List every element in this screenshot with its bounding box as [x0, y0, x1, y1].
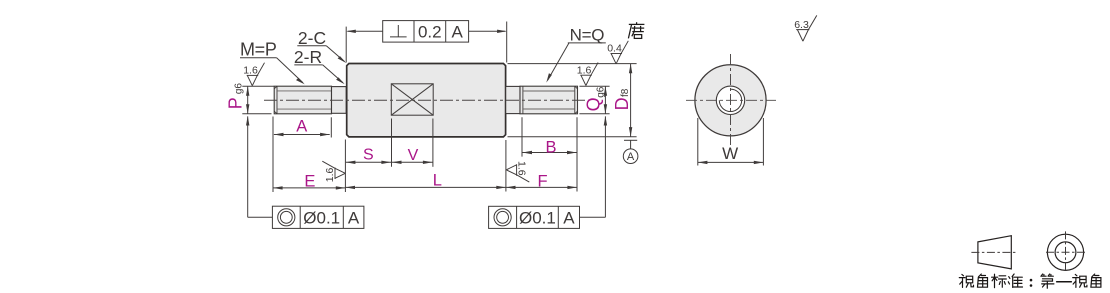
D arrows	[629, 64, 632, 74]
A arrows	[274, 133, 284, 136]
F arrows	[506, 186, 516, 189]
perpendicularity frame leaders	[346, 22, 507, 63]
svg-text:A: A	[296, 118, 307, 136]
V arrows	[392, 161, 402, 164]
svg-text:Ø0.1: Ø0.1	[519, 208, 556, 227]
D dimension line	[630, 64, 632, 137]
svg-text:A: A	[348, 208, 360, 227]
end view thread major circle	[716, 86, 744, 114]
arrowheads for dimensions	[246, 64, 763, 190]
shaft left neck	[332, 87, 347, 114]
svg-text:A: A	[452, 22, 464, 41]
svg-text:N=Q: N=Q	[570, 26, 605, 45]
first-angle projection cone symbol	[978, 236, 1011, 269]
end view centerlines	[686, 54, 776, 147]
wire centerline over body	[264, 99, 589, 101]
svg-text:M=P: M=P	[240, 40, 277, 60]
perpendicularity feature control frame	[383, 21, 469, 42]
svg-text:6.3: 6.3	[794, 19, 809, 31]
Q dimension extension lines	[579, 85, 609, 87]
perpendicularity symbol	[397, 25, 399, 37]
svg-text:2-C: 2-C	[298, 28, 326, 48]
datum A symbol below D dimension	[623, 140, 638, 163]
surface finish 0.4 (on D top extension)	[611, 41, 629, 64]
left thread minor-diameter lines	[277, 90, 331, 92]
end view thread minor 3/4 arc	[719, 89, 741, 111]
Q dimension line + datum leader (right)	[604, 86, 606, 114]
svg-text:0.4: 0.4	[607, 43, 622, 55]
label 磨 (grind)	[628, 22, 644, 38]
E / L / F dimension lines	[344, 140, 346, 193]
Q arrows	[604, 86, 607, 96]
svg-text:1.6: 1.6	[515, 161, 527, 176]
dimension letter Q with fit g6 (rotated)	[583, 97, 603, 111]
svg-text:A: A	[563, 208, 575, 227]
L arrows	[345, 186, 355, 189]
svg-text:g6: g6	[595, 86, 606, 98]
svg-text:A: A	[627, 151, 635, 163]
W dimension	[698, 118, 764, 166]
concentricity feature control frame (right)	[489, 206, 580, 228]
svg-text:Ø0.1: Ø0.1	[303, 208, 340, 227]
A dimension	[272, 117, 274, 193]
S arrows	[346, 161, 356, 164]
svg-text:V: V	[408, 147, 419, 164]
svg-text:L: L	[433, 171, 442, 189]
shaft left threaded end	[274, 86, 331, 114]
svg-text:P: P	[225, 97, 245, 109]
D dimension extension lines	[508, 63, 637, 65]
dimension letter P with fit g6 (rotated)	[225, 97, 245, 109]
svg-text:S: S	[363, 146, 374, 163]
svg-text:D: D	[612, 97, 632, 110]
concentricity feature control frame (left)	[272, 206, 364, 228]
text 视角标准：第一视角 (drawn strokes)	[959, 274, 1101, 288]
svg-text:E: E	[304, 172, 315, 190]
surface finish 6.3 (general, top right)	[796, 15, 817, 41]
svg-text:0.2: 0.2	[418, 22, 442, 41]
surface finish 1.6 (left, on P)	[247, 63, 265, 86]
svg-text:Q: Q	[583, 97, 603, 111]
surface finish 1.6 (right, on Q)	[580, 63, 598, 86]
end view outer circle (W diameter)	[695, 65, 766, 136]
svg-text:g6: g6	[233, 83, 244, 95]
shaft right neck	[506, 86, 520, 113]
svg-text:f8: f8	[620, 88, 631, 97]
svg-text:W: W	[722, 144, 738, 163]
B dimension	[521, 117, 523, 156]
B arrows	[522, 151, 532, 154]
P dimension line + datum leader (left)	[247, 86, 249, 114]
svg-text:B: B	[545, 138, 556, 156]
svg-text:F: F	[537, 172, 547, 190]
surface finish 1.6 (rotated, on left body extension)	[322, 161, 345, 182]
first-angle projection circle symbol	[1047, 234, 1083, 270]
E arrows	[273, 186, 283, 189]
cross-hole square with X on body	[391, 84, 433, 115]
W arrows	[698, 161, 708, 164]
P arrows	[246, 86, 249, 96]
S / V dimensions	[391, 119, 393, 167]
dimension letter D with fit f8 (rotated)	[612, 97, 632, 110]
svg-text:2-R: 2-R	[294, 47, 322, 67]
surface finish 1.6 (rotated, on right body extension)	[506, 161, 529, 182]
right thread minor-diameter lines	[523, 90, 575, 92]
shaft body (large diameter)	[347, 64, 506, 137]
shaft right threaded end	[520, 86, 578, 114]
P dimension extension lines	[242, 85, 274, 87]
svg-text:1.6: 1.6	[324, 167, 336, 182]
svg-text:1.6: 1.6	[577, 64, 592, 76]
svg-text:1.6: 1.6	[243, 65, 258, 77]
